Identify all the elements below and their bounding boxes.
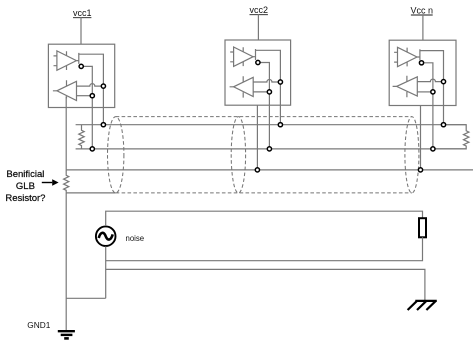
U1 pin node C3 xyxy=(90,94,94,98)
svg-text:Resistor?: Resistor? xyxy=(5,193,45,204)
cable shield bottom dashed line xyxy=(116,192,412,194)
U2 receiver triangle xyxy=(234,77,254,96)
wire U2 receiver input with crossover hop xyxy=(253,80,280,83)
cable shield ellipse 2 xyxy=(231,117,245,193)
svg-text:noise: noise xyxy=(126,234,145,243)
wire U2 output top to bus1 tap xyxy=(256,50,281,124)
wire bus line 2 (signal B) xyxy=(76,148,467,150)
node U2 tap on bus3 xyxy=(255,168,259,172)
noise source V1 xyxy=(96,226,116,246)
U3 driver output pin tick xyxy=(417,49,420,60)
wire U2 C1 to bus2 tap xyxy=(258,63,270,149)
node U1 tap on bus1 xyxy=(101,123,105,127)
wire U1 receiver input with crossover hop xyxy=(77,84,104,87)
U1 driver buffer triangle xyxy=(57,51,77,70)
U1 driver output pin tick xyxy=(76,53,78,64)
wire U1 C1 to bus2 tap xyxy=(81,66,92,148)
wire U1 receiver enable to C3 xyxy=(77,95,93,97)
wire GLB resistor down to GND1 xyxy=(65,193,67,331)
U2 driver output pin tick xyxy=(253,49,255,60)
U2 pin node C1 xyxy=(256,60,260,64)
svg-text:vcc2: vcc2 xyxy=(249,5,268,15)
resistor right terminator xyxy=(433,125,469,149)
wire U2 ground pin to bus3 xyxy=(256,105,258,170)
node U2 tap on bus1 xyxy=(278,123,282,127)
U2 driver buffer triangle xyxy=(234,47,254,66)
wire tap to earth ground xyxy=(106,269,425,301)
svg-text:GLB: GLB xyxy=(16,181,35,192)
U1 pin node C2 xyxy=(101,84,105,88)
U1 receiver triangle xyxy=(57,81,77,100)
ground GND1 symbol xyxy=(58,330,75,332)
node U3 tap on bus2 xyxy=(431,147,435,151)
wire U1 output top to bus1 tap xyxy=(79,54,104,125)
wire bus line 1 (signal A) xyxy=(76,124,467,126)
annotation Benificial GLB Resistor? xyxy=(5,169,45,204)
cable shield ellipse 3 xyxy=(405,117,419,193)
resistor series (rect style) xyxy=(419,218,426,237)
cable shield top dashed line xyxy=(116,116,412,118)
node U2 tap on bus2 xyxy=(267,147,271,151)
U3 receiver triangle xyxy=(397,77,418,96)
resistor left terminator xyxy=(79,125,84,149)
svg-text:Benificial: Benificial xyxy=(6,169,44,180)
IC U3 box xyxy=(389,40,456,105)
wire vcc2 stub xyxy=(257,15,259,40)
svg-text:vcc1: vcc1 xyxy=(73,8,92,18)
U2 pin node C3 xyxy=(267,90,271,94)
wire shield to GLB resistor xyxy=(66,192,116,194)
wire series resistor to noise bottom xyxy=(106,237,423,260)
wire U3 C1 to bus2 tap xyxy=(422,63,433,149)
svg-text:GND1: GND1 xyxy=(27,320,50,330)
wire noise top to series resistor xyxy=(106,211,423,226)
wire vcc1 stub xyxy=(80,18,82,45)
resistor GLB (ground loop breaker) xyxy=(64,170,69,193)
annotation arrow xyxy=(42,182,52,184)
wire U3 output top to bus1 tap xyxy=(420,51,444,125)
wire U2 receiver enable to C3 xyxy=(253,91,269,93)
wire noise bottom leg xyxy=(105,246,107,298)
IC U2 box xyxy=(225,40,291,105)
U1 pin node C1 xyxy=(79,64,83,68)
U3 pin node C2 xyxy=(441,80,445,84)
wire U3 receiver input with crossover hop xyxy=(417,79,443,82)
wire U3 ground pin to bus3 xyxy=(420,106,422,170)
U3 pin node C1 xyxy=(419,61,423,65)
node U3 tap on bus1 xyxy=(441,123,445,127)
cable shield ellipse 1 xyxy=(108,117,124,193)
node U1 tap on bus2 xyxy=(90,147,94,151)
U3 driver buffer triangle xyxy=(398,47,418,66)
wire bus line 3 (ground bus) xyxy=(66,169,473,171)
wire noise to GND1 branch xyxy=(66,297,106,299)
wire Vcc n stub xyxy=(422,15,424,40)
earth ground symbol right xyxy=(415,300,437,302)
U3 pin node C3 xyxy=(431,90,435,94)
svg-text:Vcc n: Vcc n xyxy=(411,6,434,16)
IC U1 box xyxy=(48,44,114,107)
node U3 tap on bus3 xyxy=(418,168,422,172)
U2 pin node C2 xyxy=(278,80,282,84)
wire U3 receiver enable to C3 xyxy=(417,91,433,93)
wire U1 ground pin to bus3 xyxy=(65,96,67,169)
